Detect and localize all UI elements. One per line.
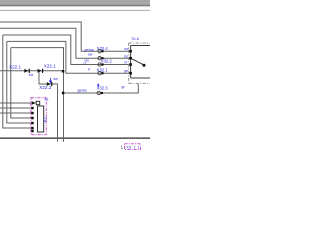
svg-text:gn: gn bbox=[124, 69, 128, 73]
svg-text:sw: sw bbox=[29, 73, 34, 77]
svg-text:sw: sw bbox=[124, 47, 129, 51]
svg-text:bn: bn bbox=[124, 54, 128, 58]
svg-text:sw: sw bbox=[53, 77, 58, 81]
svg-text:vt: vt bbox=[124, 60, 127, 64]
svg-text:K1: K1 bbox=[42, 116, 47, 122]
svg-text:sw: sw bbox=[88, 53, 93, 57]
svg-text:gr: gr bbox=[122, 85, 126, 89]
svg-text:X32.4: X32.4 bbox=[97, 46, 109, 51]
svg-text:X22.1: X22.1 bbox=[9, 64, 21, 69]
svg-text:X8.1 1: X8.1 1 bbox=[126, 146, 140, 150]
svg-text:X32.2: X32.2 bbox=[101, 59, 113, 64]
svg-text:X32.1: X32.1 bbox=[97, 68, 109, 73]
svg-text:X22.2: X22.2 bbox=[39, 85, 51, 90]
svg-text:rt: rt bbox=[84, 62, 86, 66]
svg-text:S1.6: S1.6 bbox=[132, 37, 139, 41]
svg-text:X22.1: X22.1 bbox=[44, 64, 56, 69]
svg-text:ge/ws: ge/ws bbox=[78, 89, 88, 93]
svg-text:rt: rt bbox=[88, 67, 90, 71]
svg-text:A1: A1 bbox=[44, 98, 48, 102]
svg-text:1: 1 bbox=[121, 145, 124, 150]
